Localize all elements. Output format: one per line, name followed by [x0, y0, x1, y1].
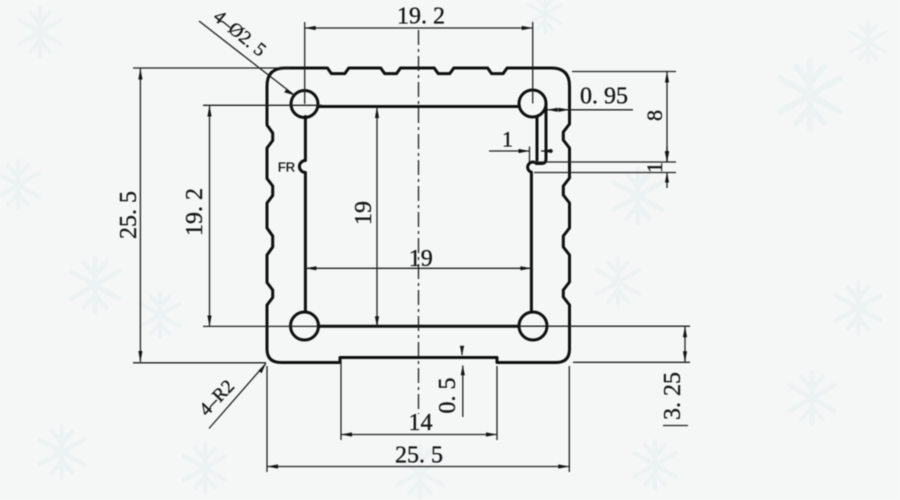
svg-text:25. 5: 25. 5	[116, 191, 142, 239]
svg-text:19: 19	[351, 201, 377, 225]
svg-text:8: 8	[642, 110, 667, 121]
svg-text:25. 5: 25. 5	[395, 443, 443, 469]
svg-text:19: 19	[409, 246, 433, 272]
svg-text:19. 2: 19. 2	[397, 4, 445, 30]
svg-text:1: 1	[642, 162, 667, 173]
svg-text:0. 5: 0. 5	[435, 378, 461, 414]
svg-text:3. 25: 3. 25	[660, 372, 686, 420]
svg-text:0. 95: 0. 95	[580, 84, 628, 110]
svg-text:1: 1	[502, 127, 513, 152]
svg-text:FR: FR	[278, 160, 295, 175]
svg-text:19. 2: 19. 2	[182, 188, 208, 236]
svg-text:14: 14	[409, 410, 433, 436]
